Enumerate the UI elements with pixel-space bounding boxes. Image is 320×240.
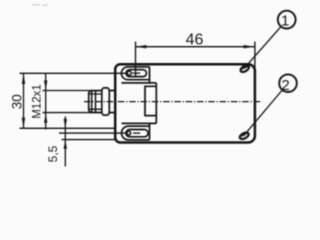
dimension 46 line [135, 46, 255, 48]
bottom slot center extension line [59, 132, 126, 134]
svg-text:2: 2 [281, 77, 289, 94]
arrowhead 46 left [135, 45, 146, 48]
M12 neck to body [109, 91, 115, 113]
M12 thread start verticals [92, 91, 96, 113]
bottom mounting boss pocket [122, 123, 157, 139]
svg-text:30: 30 [9, 94, 24, 109]
center line (dash-dot) [84, 101, 262, 103]
svg-text:M12x1: M12x1 [32, 84, 44, 119]
LED ellipse corner 1 [239, 64, 250, 73]
M12 top extension line [43, 90, 91, 92]
dimension M12x1 line [45, 73, 47, 129]
connector recess rectangle [145, 86, 156, 115]
arrowhead 5,5 bottom (pointing up) [64, 139, 67, 149]
bottom slot hole circle [127, 131, 131, 135]
arrowhead 5,5 top (pointing down) [64, 119, 67, 128]
arrowhead M12x1 bottom (outside, pointing up) [44, 113, 47, 123]
top mounting slot [126, 70, 146, 77]
leader 2 arrowhead [241, 132, 247, 137]
svg-text:46: 46 [186, 31, 204, 48]
step vertical between bosses [155, 83, 157, 124]
faint scan smudge [32, 5, 48, 6]
arrowhead M12x1 top (outside, pointing down) [44, 81, 47, 91]
balloon 2 circle [279, 74, 297, 92]
balloon 1 circle [278, 11, 296, 29]
svg-text:5,5: 5,5 [46, 145, 60, 162]
body bottom extension line [62, 139, 116, 141]
M12 connector barrel [89, 91, 102, 113]
top slot hole circle [127, 71, 131, 75]
bottom slot center dash [133, 132, 140, 134]
sensor body outline [115, 64, 255, 142]
arrowhead 46 right [244, 45, 255, 48]
dimension 30 bottom extension line [20, 127, 116, 129]
M12 nut [102, 88, 110, 115]
dimension 46 extension right [254, 42, 256, 70]
top mounting boss pocket [121, 67, 156, 83]
dimension 5,5 line [64, 117, 66, 167]
svg-text:1: 1 [281, 12, 289, 29]
dimension 30 line [23, 73, 25, 128]
top slot center dash [132, 72, 140, 74]
arrowhead 30 bottom [22, 118, 25, 129]
top slot center extension line [20, 72, 127, 74]
M12 thread root lines [89, 94, 102, 109]
dimension 46 extension left [135, 42, 137, 78]
leader line balloon 2 [244, 90, 283, 136]
M12 bottom extension line [43, 112, 91, 114]
arrowhead 30 top [22, 73, 25, 84]
bottom mounting slot [126, 130, 148, 137]
leader line balloon 1 [245, 26, 282, 68]
leader 1 arrowhead [242, 65, 249, 70]
LED ellipse corner 2 [239, 131, 250, 140]
